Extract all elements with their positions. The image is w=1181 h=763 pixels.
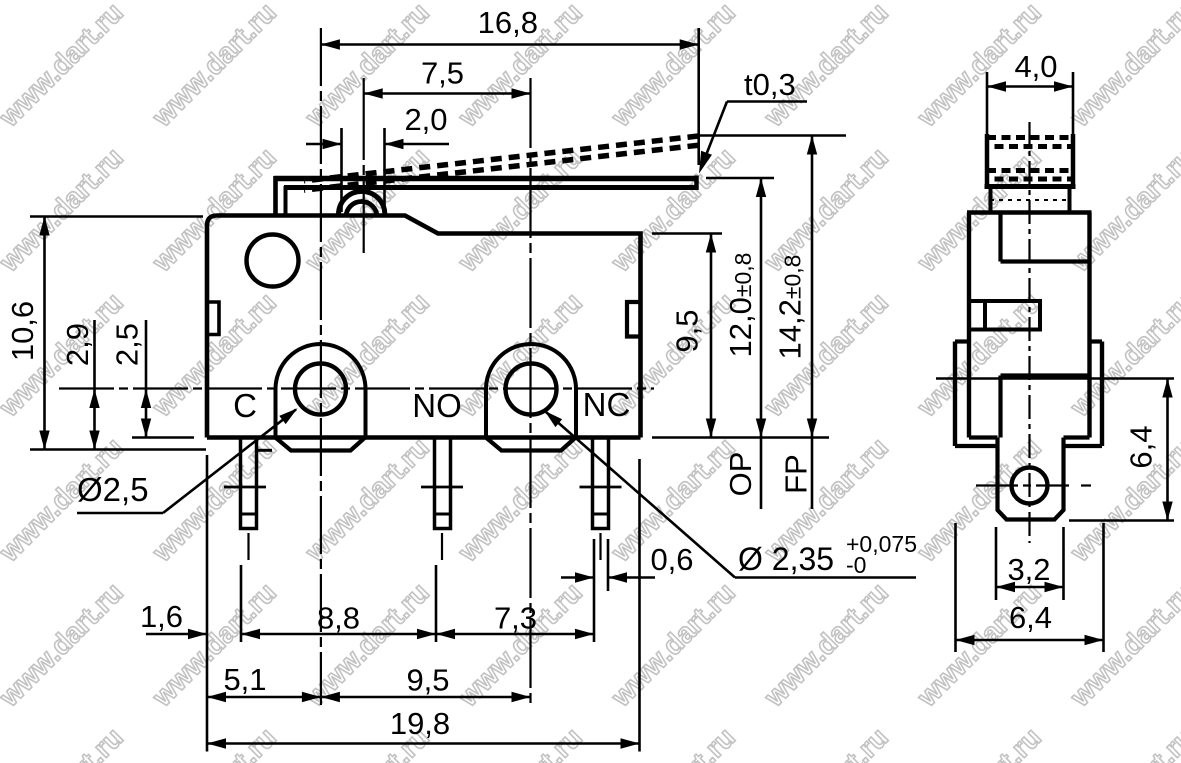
svg-text:10,6: 10,6 [5,301,40,361]
svg-text:7,5: 7,5 [421,56,464,91]
lever arm solid bottom line [284,185,698,190]
mounting hole C circle (Ø2,5) [295,364,346,415]
side view body outline [967,210,1092,215]
terminal pin NC [593,438,609,529]
mounting hole NC circle (Ø2,35) [506,364,557,415]
side view bottom tab [998,438,1064,520]
extension line operating position (OP) level [706,177,774,180]
svg-text:8,8: 8,8 [317,601,360,636]
dimension 4,0 (lever width) [986,72,989,135]
svg-text:4,0: 4,0 [1014,49,1057,84]
pin C centerline stub [247,533,249,560]
dimension 6,4 right (step to tab bottom) [936,377,1174,380]
leader Ø2,5 (hole C) [77,512,163,515]
svg-text:19,8: 19,8 [390,706,450,741]
svg-text:7,3: 7,3 [494,601,537,636]
extension line body top left [30,215,203,218]
dimension 7,3 (pin NO to pin NC) [436,633,594,636]
extension line body left bottom [206,455,209,752]
side view body bottom edges [969,435,998,439]
extension line body top right [652,232,722,235]
svg-text:9,5: 9,5 [406,663,449,698]
svg-text:C: C [233,387,257,424]
svg-text:6,4: 6,4 [1009,600,1052,635]
svg-text:9,5: 9,5 [670,309,705,352]
dimension 7,5 [364,92,531,95]
holes horizontal centerline [59,387,654,389]
svg-text:Ø 2,35: Ø 2,35 [738,541,834,577]
pivot centerline vertical [363,78,365,253]
dimension 16,8 [697,28,700,165]
extension line free position (FP) level [700,134,846,137]
right edge clip notch [627,302,641,337]
dimension 5,1 (edge to hole C) [207,696,321,699]
svg-text:2,9: 2,9 [60,323,95,366]
lever pivot curl inner arc [346,202,377,218]
lever free position bottom line (dashed) [304,145,699,190]
pin NO centerline stub [441,533,443,560]
dimension 6,4 bottom (flange width) [954,523,957,652]
side view clip slot [969,301,1040,330]
extension line pin NO left [435,565,438,642]
pin C centerline tick [224,486,266,489]
dimension 0,6 (pin thickness) [593,539,596,642]
lever pivot curl outer arc [339,191,385,214]
centerline through NC hole / plunger vertical [529,78,531,705]
dimension 1,6 [146,633,207,636]
side view tab hole circle [1012,468,1048,504]
extension line lug bottom left [30,448,206,451]
leader t0,3 (lever thickness) [727,100,807,103]
dimension 8,8 (pin C to pin NO) [241,633,436,636]
side view left lug flange [953,342,957,447]
svg-text:6,4: 6,4 [1124,425,1159,468]
lever bent left end outer [273,176,278,214]
svg-text:1,6: 1,6 [140,599,183,634]
lever bent left end inner [284,186,288,214]
extension line body bottom short left [132,436,194,439]
terminal pin C [241,438,257,529]
lever arm solid (operating position) top line [274,176,698,182]
side view right lug flange [1100,342,1104,447]
mounting lug (right ear) around NC hole [486,344,576,438]
dimension 2,5 [145,320,148,438]
mounting lug (left ear) around hole C [276,344,366,437]
pin NC centerline tick [580,486,622,489]
svg-text:16,8: 16,8 [478,5,538,40]
side view lower step [1001,373,1090,377]
centerline through hole C vertical [320,28,322,705]
svg-text:5,1: 5,1 [223,662,266,697]
svg-text:t0,3: t0,3 [744,67,796,102]
side view plunger section [989,187,993,213]
svg-text:0,6: 0,6 [650,542,693,577]
dimension 19,8 (body width) [207,742,640,745]
pin NO centerline tick [421,486,463,489]
lever free position top line (dashed) [304,136,699,181]
svg-text:OP: OP [723,452,758,497]
extension line body right bottom [638,459,641,752]
dimension 10,6 (body height left) [43,217,46,450]
dimension 9,5 (hole C to NC hole) [321,696,531,699]
side view upper step [998,213,1002,262]
dimension 2,9 [93,320,96,450]
dimension 12,0±0,8 (OP height) [760,178,763,509]
lever tip end cap [694,176,699,191]
svg-text:FP: FP [779,454,814,494]
side view tab hole horizontal centerline [976,484,1069,486]
dimension 3,2 (tab width) [995,527,998,600]
front view switch body outline [207,216,641,438]
svg-text:2,0: 2,0 [404,102,447,137]
leader Ø2,35 +0,075/-0 (NC hole) [735,576,916,579]
svg-text:2,5: 2,5 [110,323,145,366]
upper mounting hole (plain circle) [247,235,299,287]
svg-text:-0: -0 [846,552,866,578]
side view lever cross-section [985,134,990,187]
left edge clip notch [207,302,219,335]
extension line pin C left [240,565,243,642]
svg-text:Ø2,5: Ø2,5 [77,471,149,508]
extension line body bottom right [652,436,829,439]
pin NC centerline stub [599,533,601,560]
terminal pin NO [435,438,451,529]
dimension 2,0 [340,128,343,212]
svg-text:NO: NO [412,387,462,424]
svg-text:NC: NC [583,386,631,423]
svg-text:3,2: 3,2 [1007,552,1050,587]
side view vertical centerline [1028,122,1030,543]
dimension 9,5 (body height) [710,234,713,438]
dimension 14,2±0,8 (FP height) [811,136,814,510]
